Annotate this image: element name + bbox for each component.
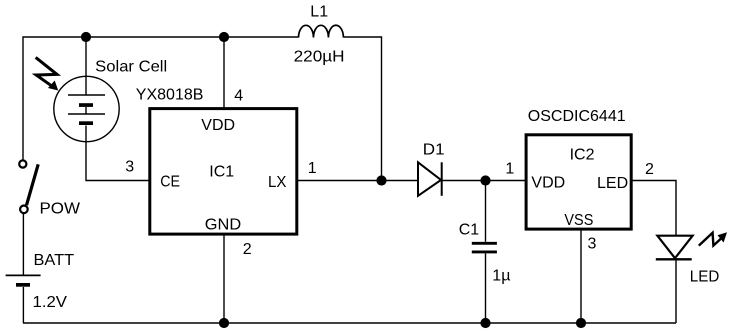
wire: IC2 pin 2 to LED anode <box>632 181 676 236</box>
svg-text:BATT: BATT <box>34 252 75 269</box>
svg-text:VDD: VDD <box>531 174 565 191</box>
svg-text:2: 2 <box>645 161 654 178</box>
wire: LED cathode to bottom rail <box>675 259 677 323</box>
wire: bottom rail <box>23 322 676 324</box>
node: D1 / C1 / IC2 junction <box>480 175 490 185</box>
wire: IC1 pin 2 lead to bottom rail <box>223 235 225 324</box>
node: C1 / bottom rail junction <box>480 318 490 328</box>
node: LX / inductor junction <box>376 175 386 185</box>
wire: IC2 VSS pin 3 lead <box>580 230 582 323</box>
node: solar cell / top rail junction <box>81 32 91 42</box>
svg-text:CE: CE <box>160 174 180 191</box>
wire: IC1 pin 4 lead <box>223 37 225 109</box>
svg-text:4: 4 <box>234 88 243 105</box>
svg-text:LED: LED <box>690 268 720 285</box>
wire: battery to bottom rail <box>22 287 24 323</box>
svg-text:POW: POW <box>40 200 81 217</box>
svg-text:YX8018B: YX8018B <box>136 87 204 104</box>
svg-text:Solar Cell: Solar Cell <box>95 59 167 76</box>
solar cell PV1 <box>54 76 119 141</box>
node: VSS / bottom rail junction <box>576 318 586 328</box>
inductor L1 <box>299 25 344 37</box>
capacitor C1 <box>472 243 497 252</box>
wire: solar cell top lead <box>85 37 87 95</box>
svg-text:1: 1 <box>505 161 514 178</box>
light arrow out of LED <box>699 232 727 245</box>
svg-text:LX: LX <box>268 174 287 191</box>
svg-text:1µ: 1µ <box>492 268 510 285</box>
node: GND / bottom rail junction <box>219 318 229 328</box>
IC1 YX8018B box <box>150 109 297 235</box>
svg-text:2: 2 <box>243 241 252 258</box>
switch POW <box>19 160 38 213</box>
svg-text:VDD: VDD <box>201 117 235 134</box>
wire: top rail right segment + right vertical to LX node <box>343 37 381 181</box>
diode D1 <box>418 162 442 196</box>
wire: D1 cathode to IC2 pin 1 <box>442 180 526 182</box>
wire: CE pin from solar cell <box>86 126 150 181</box>
wire: left vertical + top rail left segment <box>23 37 299 160</box>
svg-text:IC1: IC1 <box>209 164 234 181</box>
LED D2 <box>656 236 693 260</box>
svg-text:1: 1 <box>308 160 317 177</box>
light arrow into solar cell <box>36 57 59 90</box>
wire: C1 top lead <box>485 181 487 242</box>
svg-text:D1: D1 <box>423 141 445 158</box>
wire: switch to battery <box>22 214 24 275</box>
IC2 OSCDIC6441 box <box>526 135 631 229</box>
svg-text:3: 3 <box>588 236 597 253</box>
svg-text:IC2: IC2 <box>570 147 595 164</box>
svg-text:LED: LED <box>597 175 628 192</box>
node: pin 4 / top rail junction <box>219 32 229 42</box>
svg-text:3: 3 <box>125 159 134 176</box>
wire: LX pin to D1 anode <box>297 180 418 182</box>
wire: C1 bottom lead <box>485 254 487 324</box>
battery BATT <box>6 275 41 286</box>
svg-text:OSCDIC6441: OSCDIC6441 <box>528 108 626 125</box>
svg-text:VSS: VSS <box>564 212 593 229</box>
svg-text:1.2V: 1.2V <box>33 294 68 311</box>
svg-text:220µH: 220µH <box>294 49 345 66</box>
svg-text:L1: L1 <box>310 3 328 20</box>
svg-text:GND: GND <box>205 217 241 234</box>
svg-text:C1: C1 <box>459 222 480 239</box>
